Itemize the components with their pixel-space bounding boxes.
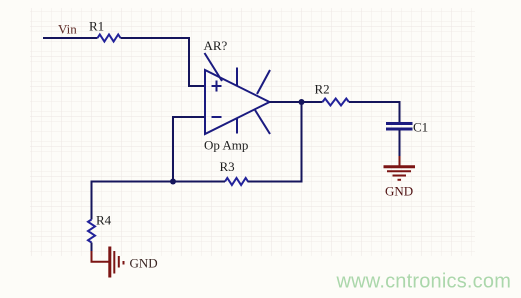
minus sign [212, 116, 222, 118]
svg-text:R1: R1 [89, 19, 104, 34]
svg-text:AR?: AR? [204, 38, 228, 53]
svg-text:Op Amp: Op Amp [204, 138, 248, 153]
wire feedback row left of R3 [92, 182, 226, 220]
wire output to R2 [302, 101, 323, 103]
capacitor C1 [386, 120, 428, 135]
wire R1 to op-amp non-inverting input [121, 38, 205, 86]
junction feedback node [170, 179, 176, 185]
plus sign [212, 81, 222, 92]
op-amp U1 AR? [204, 38, 271, 153]
wire C1 to ground [399, 130, 401, 156]
svg-text:R2: R2 [315, 82, 330, 97]
svg-text:Vin: Vin [58, 22, 77, 37]
wire output node down to feedback row [248, 102, 302, 182]
pin diagonal upper-right [257, 70, 270, 94]
resistor R2 [315, 82, 349, 106]
wire Vin input segment [43, 37, 98, 39]
ground GND right power port [384, 156, 416, 199]
svg-text:www.cntronics.com: www.cntronics.com [336, 271, 512, 293]
wire inverting input [173, 117, 205, 182]
junction output node [299, 99, 305, 105]
resistor R3 [220, 159, 249, 185]
wire R4 to ground [91, 243, 93, 253]
resistor R1 [89, 19, 121, 42]
svg-text:R3: R3 [220, 159, 235, 174]
triangle body [205, 70, 270, 134]
svg-text:C1: C1 [413, 120, 428, 135]
svg-text:GND: GND [130, 256, 158, 271]
ground GND left power port (rotated) [92, 247, 158, 278]
wire op-amp output [270, 101, 302, 103]
pin diagonal lower-right [255, 110, 270, 134]
pin V+ vertical [236, 68, 238, 87]
svg-text:GND: GND [385, 184, 413, 199]
resistor R4 [88, 213, 112, 243]
pin diagonal upper-left [205, 53, 223, 81]
svg-text:R4: R4 [96, 213, 112, 228]
pin V- vertical [236, 118, 238, 134]
wire R2 to C1 [349, 102, 400, 122]
